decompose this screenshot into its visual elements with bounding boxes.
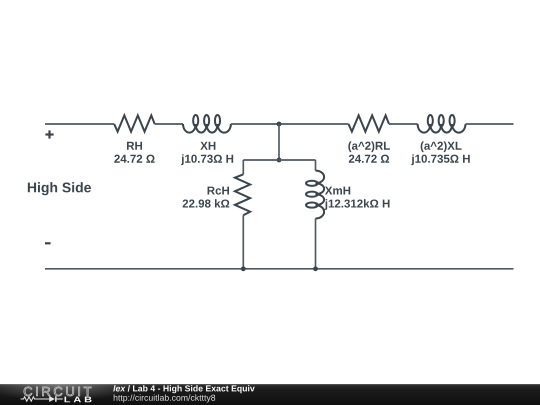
label (a^2)XL xyxy=(421,141,424,152)
value (a^2)XL j10.735 ohm H xyxy=(411,154,414,165)
node C junction xyxy=(241,266,246,271)
footer title text xyxy=(113,385,115,391)
minus terminal label xyxy=(45,242,51,244)
label (a^2)RL xyxy=(348,141,351,152)
value (a^2)RL 24.72 ohm xyxy=(349,155,355,163)
wire XH to node A xyxy=(231,123,349,125)
resistor RcH xyxy=(235,174,250,215)
wire RL-XL xyxy=(389,123,418,125)
wire to RcH top xyxy=(242,160,244,174)
logo CIRCUIT wordmark xyxy=(24,387,32,396)
label RcH xyxy=(208,187,215,195)
wire to XmH top xyxy=(315,160,317,171)
value XmH j12.312 kohm H xyxy=(325,199,328,210)
wire splitter xyxy=(243,159,315,161)
logo LAB wordmark xyxy=(65,397,71,403)
label XmH xyxy=(325,187,332,195)
resistor (a^2)RL xyxy=(349,115,390,131)
wire RH-XH xyxy=(155,123,183,125)
plus terminal label xyxy=(45,133,53,135)
value RcH 22.98 kohm xyxy=(183,199,189,207)
wire XmH to bottom xyxy=(315,219,317,269)
bottom wire xyxy=(45,268,514,270)
wire RcH to bottom xyxy=(242,215,244,268)
wire top right xyxy=(466,123,514,125)
node B junction xyxy=(277,158,282,163)
inductor (a^2)XL xyxy=(418,124,466,133)
inductor XH xyxy=(183,124,231,133)
footer url text xyxy=(114,394,118,400)
inductor XmH xyxy=(316,171,325,219)
logo diode xyxy=(49,396,55,402)
value XH j10.73 ohm H xyxy=(181,154,184,165)
resistor RH xyxy=(114,115,155,131)
node A junction xyxy=(277,122,282,127)
value RH 24.72 ohm xyxy=(114,155,120,163)
label High Side xyxy=(28,183,36,193)
node D junction xyxy=(313,266,318,271)
wire node A down xyxy=(278,124,280,160)
logo resistor zigzag xyxy=(21,397,50,401)
label RH xyxy=(127,142,134,150)
wire top left xyxy=(45,123,114,125)
label XH xyxy=(200,142,207,150)
footer bar xyxy=(0,384,540,405)
